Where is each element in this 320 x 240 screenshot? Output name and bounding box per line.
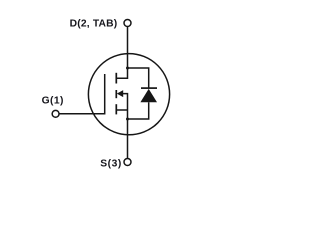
junction node source-diode	[126, 118, 129, 121]
gate electrode line and gate lead wire	[60, 74, 105, 114]
svg-text:G(1): G(1)	[42, 96, 64, 107]
drain wire	[116, 27, 127, 79]
diode D1 triangle (anode)	[140, 89, 157, 102]
mosfet channel dash (drain)	[115, 73, 117, 84]
transistor envelope circle	[88, 54, 169, 135]
svg-text:D(2, TAB): D(2, TAB)	[70, 19, 118, 30]
body arrow (points to channel)	[117, 90, 123, 97]
mosfet channel dash (source)	[115, 104, 117, 114]
body stub wire with corner down to source bus	[123, 94, 128, 159]
wire to body diode cathode	[128, 68, 149, 88]
gate terminal circle	[52, 110, 59, 117]
diode D1 cathode bar	[141, 87, 157, 89]
junction node drain-diode	[126, 67, 129, 70]
diode anode wire	[128, 102, 149, 119]
drain terminal circle	[124, 20, 131, 27]
svg-text:S(3): S(3)	[100, 159, 122, 170]
mosfet channel dash (body)	[115, 90, 117, 98]
source terminal circle	[124, 159, 131, 166]
source stub wire	[116, 109, 127, 111]
